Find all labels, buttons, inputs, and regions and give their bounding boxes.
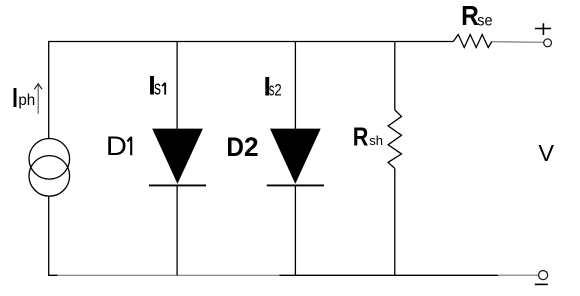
svg-text:I: I <box>12 83 18 114</box>
wire: gray lead to + terminal <box>492 41 544 44</box>
wire: bottom rail black middle segment <box>279 274 498 276</box>
svg-text:se: se <box>477 12 492 30</box>
arrow for Iph: head <box>34 84 42 90</box>
current source Iph: top circle <box>29 139 70 180</box>
label Rse: se subscript <box>477 12 492 30</box>
svg-text:V: V <box>538 140 554 166</box>
wire: D2 branch bottom <box>294 185 296 275</box>
wire: bottom rail gray right segment to - terminal <box>498 274 539 276</box>
svg-text:sh: sh <box>369 133 383 148</box>
svg-text:D: D <box>226 133 244 162</box>
label Rsh: R <box>353 122 369 151</box>
svg-text:ph: ph <box>18 92 35 109</box>
diode D2 cathode bar <box>267 184 324 186</box>
svg-text:2: 2 <box>244 131 259 161</box>
svg-text:D: D <box>106 131 127 161</box>
diode D1 cathode bar <box>149 184 206 186</box>
terminal - port circle <box>539 271 548 280</box>
label Is2: s subscript <box>269 80 275 101</box>
terminal + port circle <box>544 39 552 47</box>
wire: left rail bottom elbow <box>49 196 58 275</box>
wire: Rsh branch bottom <box>394 168 396 275</box>
label D2: D <box>226 133 244 162</box>
wire: bottom rail gray left segment <box>58 274 280 276</box>
wire: D2 branch top <box>294 42 296 129</box>
svg-text:R: R <box>353 122 369 151</box>
label D2: 2 <box>244 131 259 161</box>
resistor Rsh zigzag <box>388 110 401 168</box>
svg-text:s: s <box>154 76 161 99</box>
label Is1: 1 subscript (drawn) <box>162 83 165 95</box>
wire: Rsh branch top <box>394 42 396 110</box>
label D1: 1 (drawn) <box>127 137 131 156</box>
label D1: D <box>106 131 127 161</box>
svg-text:R: R <box>461 0 479 32</box>
arrow for Iph: shaft <box>37 84 39 114</box>
current source Iph: bottom circle <box>29 156 70 197</box>
wire: left rail up to top rail <box>49 42 454 139</box>
diode D1 triangle <box>152 129 203 184</box>
label Is1: s subscript <box>154 76 161 99</box>
wire: D1 branch top <box>176 42 178 129</box>
wire: D1 branch bottom <box>176 185 178 275</box>
label Iph: ph subscript <box>18 92 35 109</box>
label Rse: R <box>461 0 479 32</box>
label Is2: 2 subscript <box>274 81 281 100</box>
label Iph: I <box>12 83 18 114</box>
svg-text:2: 2 <box>274 81 281 100</box>
plus sign <box>535 23 551 35</box>
diode D2 triangle <box>270 129 321 184</box>
resistor Rse zigzag <box>453 35 492 48</box>
minus sign <box>535 283 548 285</box>
